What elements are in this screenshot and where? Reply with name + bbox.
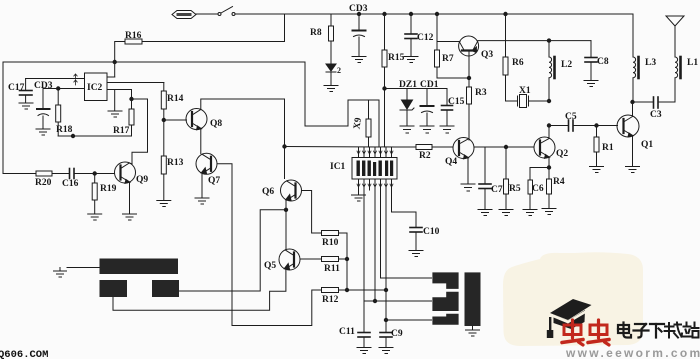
resistor R13 [161,156,166,200]
logo chong character 2 (red) [588,320,609,345]
svg-text:Q5: Q5 [264,261,276,271]
ground blob left [54,268,100,278]
IC1 top pin arrows [357,151,393,154]
ceramic filter CF1 block1 [432,272,458,289]
svg-text:CD3: CD3 [349,4,368,14]
resistor R5 [504,147,509,209]
ceramic filter CF1 block2 [432,292,458,311]
wire Q1 emitter [632,136,634,166]
resistor R4 [547,168,552,209]
svg-text:CD3: CD3 [34,81,53,91]
svg-text:X9: X9 [352,117,364,130]
svg-text:C8: C8 [597,57,609,67]
wire Q2 emitter [548,158,550,168]
wire emitter to C6 [530,168,549,181]
IC2 right pin2 wire to R14 [107,82,164,84]
wire Q1 collector [632,102,634,116]
IC1 top pins [359,147,392,158]
node R1 junction [595,124,598,127]
wire Q6 base to R10 [302,191,322,234]
node rail-R7 drop [435,12,438,15]
transistor Q6 (mirrored) [281,180,302,201]
capacitor CD1 [421,89,434,127]
svg-text:Q8: Q8 [210,119,222,129]
capacitor C11 [358,301,370,347]
capacitor C8 [585,41,597,80]
diode D2 [326,64,336,85]
ceramic filter CF1 bar [465,272,481,326]
zener DZ1 [400,89,414,127]
resistor R15 [382,14,387,147]
ground below DZ1 [400,126,414,133]
wire: base line R20/C16 [20,173,36,175]
ground below CF1 [466,326,480,336]
node R19 junction [93,172,96,175]
wire blob right pad feed [179,210,286,291]
node Q8 base junction [162,118,165,121]
node R12 bus [345,288,348,291]
wire Q3 base [437,41,460,43]
wire: R bus vertical [346,233,348,290]
node Q3 emitter junction [467,76,470,79]
svg-text:IC1: IC1 [330,162,346,172]
svg-text:R16: R16 [125,31,142,41]
transistor Q5 (mirrored) [279,249,300,270]
svg-text:R4: R4 [553,177,565,187]
node rail-R6 [504,12,507,15]
transformer T1 pad right [152,280,179,297]
svg-text:C10: C10 [423,227,440,237]
wire comb1 line [381,277,432,279]
node C9 top [384,318,387,321]
ground below R19 [88,214,102,220]
svg-text:Q4: Q4 [445,157,457,167]
svg-text:C9: C9 [391,329,403,339]
logo char dian [618,323,631,338]
ground below IC2 [108,90,122,118]
transistor Q9 [115,162,136,183]
svg-text:R20: R20 [35,178,52,188]
svg-text:Q7: Q7 [208,176,220,186]
capacitor C6 [528,180,533,209]
node Q1 collector junction [631,100,634,103]
wire battery to switch [196,13,218,15]
wire Q9 collector [129,163,132,164]
inductor L2 [549,41,555,101]
svg-text:R14: R14 [167,94,184,104]
node X1 right junction [547,99,550,102]
resistor R14 [161,83,166,157]
capacitor C16 [70,169,115,179]
node R18 top [57,87,60,90]
transistor Q7 (mirrored) [196,153,217,174]
svg-text:Q6: Q6 [262,187,274,197]
ground below R13 [157,201,171,207]
resistor R17 [129,109,134,136]
wire R7 bottom to emitter node [437,77,469,79]
svg-text:L1: L1 [687,58,698,68]
svg-text:R18: R18 [56,125,73,135]
node C5 left junction [547,124,550,127]
resistor R8 [329,14,334,64]
ground below C17 [19,103,33,109]
wire R20 to C16 [52,173,69,175]
logo char zhan [684,323,699,338]
node rail-CD3 [357,12,360,15]
svg-text:R19: R19 [100,184,117,194]
svg-text:C15: C15 [448,97,465,107]
transistor Q4 [453,138,474,159]
wire R10 to bus [339,232,348,234]
svg-text:Q606.COM: Q606.COM [0,349,48,359]
svg-text:R15: R15 [388,53,405,63]
wire CD3/R18 to IC2 pin3 [43,88,85,90]
wire to Q8 base [164,119,187,121]
wire R17 node to Q9 collector [132,99,148,164]
wire C10 branch [392,212,417,227]
svg-text:R10: R10 [322,238,339,248]
wire: zener rail [385,88,448,90]
svg-text:C6: C6 [532,184,544,194]
svg-text:C11: C11 [339,327,355,337]
logo background blob [503,252,643,346]
ground below C6 [523,210,537,216]
svg-text:C16: C16 [62,179,79,189]
node box-top junction [113,60,116,63]
node R5 junction [504,145,507,148]
ground below C15 [440,126,454,133]
ground below C7 [478,210,492,216]
svg-text:R11: R11 [324,264,340,274]
node R11 bus [345,257,348,260]
resistor R18 [56,89,61,137]
battery BT1 [172,11,196,19]
ground Q7 [195,198,209,204]
node blob feed junction [284,208,287,211]
IC1 internal bars [357,161,394,177]
wire Q7 base to bottom [217,164,322,326]
ground IC1 pin1 [352,195,366,201]
ground below C12 [404,57,418,63]
wire Q5 base to R11 [300,258,322,260]
logo graduation cap [547,299,592,338]
ground below C9 [379,348,393,354]
svg-text:L2: L2 [561,60,572,70]
node bottom link [71,134,74,137]
wire R12 to C9 line [339,289,387,291]
node rail-C12 [409,12,412,15]
logo char zai [665,323,683,338]
resistor R20 [36,171,52,176]
node C9 vertical at R12 line [384,288,387,291]
transformer T1 pad left [100,280,128,297]
ground Q4 [461,184,475,191]
capacitor C7 [479,147,491,209]
svg-text:2: 2 [337,66,341,75]
wire Q2 collector [548,126,550,139]
IC1 bottom pins [359,179,392,320]
transistor Q3 [459,36,479,78]
resistor R12 [322,288,339,293]
resistor R19 [92,174,97,215]
wire Q4 to Q2 [475,146,535,148]
svg-text:X1: X1 [519,86,531,96]
transistor Q2 [534,137,555,158]
ground below R5 [499,210,513,216]
wire Q9 emitter [129,183,131,215]
wire Q6 emitter to Q5 [285,201,287,250]
resistor R16 [125,39,142,44]
switch S1 [218,7,235,16]
capacitor C3 [633,97,676,108]
svg-text:Q1: Q1 [641,140,653,150]
transistor Q1 [617,115,639,137]
inductor L3 [633,14,639,102]
ground below CD1 [420,126,434,133]
svg-text:www.eeworm.com: www.eeworm.com [565,346,700,359]
wire Q3 collector to L2 rail [478,40,591,42]
inductor L1 [675,57,681,102]
svg-text:Q2: Q2 [556,149,568,159]
crystal X9 [366,100,371,147]
antenna ANT [666,16,684,57]
capacitor C9 [380,320,392,347]
resistor R7 [435,14,440,78]
svg-text:Q3: Q3 [481,50,493,60]
wire Q6 branch to IC1 row [285,146,396,149]
wire: outer feedback box [3,62,305,174]
wire C11 comb line [364,300,432,302]
svg-text:DZ1: DZ1 [399,80,417,90]
IC2 box [85,73,108,101]
node rail-R16 drop [115,14,285,42]
wire Q4 emitter [467,158,469,185]
wire comb3 line [386,319,432,321]
ground below CD3 [352,57,366,63]
IC1 box [352,158,397,180]
svg-text:R2: R2 [419,151,431,161]
transistor Q8 [186,109,207,130]
wire R16 to IC2 [114,42,116,78]
ground Q9 [123,214,137,220]
svg-text:C5: C5 [565,112,577,122]
svg-text:IC2: IC2 [87,83,103,93]
svg-text:R7: R7 [442,54,454,64]
logo char xia [650,324,664,338]
wire Q5 emitter to blob [113,269,286,310]
svg-text:R17: R17 [113,126,130,136]
wire R18-R17 bottom link [58,135,131,137]
capacitor C17 [20,79,33,103]
node Q2 emitter junction [547,166,550,169]
node DZ-rail junction [383,87,386,90]
svg-text:R3: R3 [475,88,487,98]
logo char zi [634,324,649,338]
svg-text:L3: L3 [645,58,656,68]
resistor R2 [395,145,453,150]
logo chong character 1 (red) [562,320,583,345]
node R17 top junction [130,97,133,100]
svg-text:C12: C12 [417,33,434,43]
svg-text:R5: R5 [509,184,521,194]
transformer T1 top bar [100,259,179,275]
wire: box right zigzag to IC1 [305,62,379,147]
node rail-R15 [383,12,386,15]
svg-text:R8: R8 [310,28,322,38]
capacitor CD3 (top electrolytic) [353,14,366,56]
wire C17 to IC2 pin1 [26,78,85,80]
svg-text:C3: C3 [650,110,662,120]
wire: V+ top rail [235,13,633,15]
ceramic filter CF1 block3 [432,314,458,325]
wire R17 drop [131,90,133,110]
ground below R1 [590,167,604,173]
capacitor C5 [549,120,597,131]
capacitor C10 [410,228,422,251]
crystal X1 [506,95,550,108]
svg-text:C17: C17 [8,83,25,93]
wire Q8 collector to Q6 drop [201,99,285,179]
ground below CD3 [36,129,50,135]
wire Q8 emitter to Q7 [200,129,202,154]
capacitor C15 [442,89,453,127]
node L2 top [547,39,550,42]
ground below D2 [324,86,338,92]
svg-text:R1: R1 [602,143,614,153]
pin arrows IC2 left [74,74,77,85]
svg-text:R12: R12 [322,295,339,305]
svg-text:R13: R13 [167,158,184,168]
svg-text:R6: R6 [512,58,524,68]
svg-text:Q9: Q9 [136,175,148,185]
svg-text:CD1: CD1 [420,80,439,90]
wire C5 to Q1 base [597,125,618,127]
ground below C10 [409,251,423,257]
resistor R3 [467,78,472,140]
ground below C8 [584,81,598,87]
wire Q7 emitter [201,174,203,199]
IC2 right pin3 wire to R17 [107,89,132,91]
resistor R11 [322,257,339,262]
capacitor CD3 (left electrolytic) [37,89,50,129]
node Q6 collector branch [283,145,286,148]
capacitor C12 [405,14,417,56]
ground below R4 [542,209,556,215]
IC1 bottom pin arrows [357,184,393,187]
resistor R1 [594,126,599,167]
ground Q1 [626,167,640,173]
wire R11 to bus [339,258,348,260]
node C11 line junction [373,299,376,302]
IC2 right pin1 [107,76,115,78]
ground below C11 [357,348,371,354]
resistor R6 [503,14,508,101]
resistor R10 [322,231,339,236]
svg-text:C7: C7 [491,185,503,195]
